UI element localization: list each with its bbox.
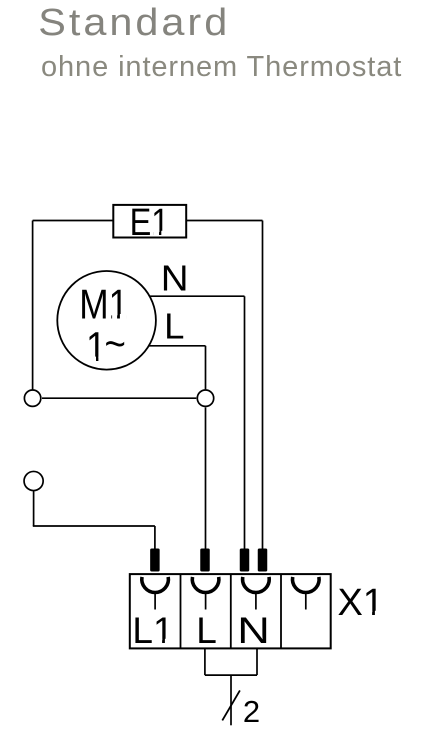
clamp symbol terminal L1 bbox=[142, 577, 169, 610]
clamp symbol terminal N bbox=[243, 577, 270, 610]
plug contact circle C (lower left, open) bbox=[24, 471, 43, 490]
heater E1 box bbox=[113, 205, 186, 238]
wire between plug contacts A and B bbox=[42, 397, 196, 399]
terminal divider 3 bbox=[280, 574, 282, 648]
wire left vertical to plug contact bbox=[32, 221, 34, 391]
svg-text:2: 2 bbox=[243, 694, 260, 729]
wire from contact C down bbox=[33, 491, 35, 526]
clamp symbol terminal L bbox=[192, 577, 219, 610]
svg-text:E1: E1 bbox=[130, 202, 170, 244]
cable bracket left vertical bbox=[204, 648, 206, 675]
terminal block X1 outline bbox=[130, 574, 331, 648]
svg-text:L: L bbox=[196, 610, 217, 651]
svg-text:Standard: Standard bbox=[38, 1, 230, 43]
terminal divider 2 bbox=[230, 574, 232, 648]
svg-text:X1: X1 bbox=[337, 582, 383, 624]
wire motor L horizontal bbox=[149, 345, 206, 347]
wire motor L vertical to plug contact bbox=[205, 346, 207, 390]
svg-text:1: 1 bbox=[86, 324, 106, 371]
svg-text:ohne internem Thermostat: ohne internem Thermostat bbox=[41, 51, 402, 83]
ferrule F2 (wire end sleeve, terminal L) bbox=[200, 549, 210, 572]
label M1 bbox=[79, 282, 128, 329]
ferrule F1 (wire end sleeve, terminal L1) bbox=[150, 549, 160, 572]
svg-text:~: ~ bbox=[105, 321, 126, 368]
wire vertical into L1 ferrule bbox=[154, 526, 156, 552]
terminal divider 1 bbox=[180, 574, 182, 648]
svg-text:L: L bbox=[164, 306, 184, 347]
clamp symbol terminal spare bbox=[293, 577, 320, 610]
cable stem vertical bbox=[230, 675, 232, 725]
wire L vertical below contact B to terminal L bbox=[205, 407, 207, 552]
cable slash (2 conductors) bbox=[222, 690, 240, 720]
label X1 terminal block bbox=[337, 582, 383, 624]
motor M1 circle bbox=[57, 271, 156, 370]
ferrule F3 (wire end sleeve, terminal N from motor) bbox=[240, 549, 250, 572]
label 1~ bbox=[86, 321, 126, 371]
cable bracket right vertical bbox=[256, 648, 258, 675]
svg-text:N: N bbox=[237, 610, 270, 651]
label E1 bbox=[130, 202, 170, 244]
wire motor N horizontal bbox=[150, 295, 245, 297]
ferrule F4 (wire end sleeve, terminal N from E1) bbox=[258, 549, 268, 572]
wire right vertical down to terminal N ferrule bbox=[262, 221, 264, 553]
wire E1 right horizontal bbox=[186, 220, 262, 222]
plug contact circle A (left) bbox=[24, 390, 40, 406]
svg-text:N: N bbox=[161, 258, 189, 299]
wire motor N vertical down to terminal bbox=[244, 296, 246, 552]
wire E1 left horizontal bbox=[33, 220, 114, 222]
cable bracket horizontal bbox=[205, 674, 257, 676]
wire horizontal to terminal L1 bbox=[33, 525, 155, 527]
svg-text:L1: L1 bbox=[132, 610, 173, 651]
plug contact circle B (on L wire) bbox=[197, 390, 213, 406]
label terminal L1 bbox=[132, 610, 173, 651]
